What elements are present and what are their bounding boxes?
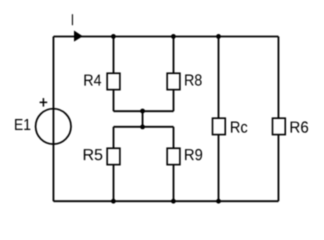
wire bottom horizontal	[53, 200, 278, 202]
wire R8 branch top	[173, 37, 175, 74]
resistor R4	[107, 73, 120, 89]
wire R9 branch bottom	[173, 165, 175, 202]
wire left vertical	[52, 37, 54, 202]
wire center link	[142, 111, 144, 127]
junction node mid upper	[140, 109, 145, 114]
label R8	[185, 74, 201, 85]
resistor R5	[107, 148, 120, 164]
current arrow I	[74, 31, 83, 42]
wire R4 branch top	[113, 37, 115, 74]
label E1	[15, 119, 30, 130]
junction node top R4	[111, 34, 116, 39]
junction node top R8	[171, 34, 176, 39]
wire Rc branch bottom	[218, 135, 220, 202]
voltage source E1	[36, 109, 71, 144]
wire R6 branch top	[277, 37, 279, 119]
junction node bottom Rc	[216, 199, 221, 204]
label R5	[84, 149, 103, 160]
wire R5 branch bottom	[113, 165, 115, 202]
wire R4 to mid node	[113, 90, 115, 112]
resistor R8	[167, 73, 180, 89]
junction node top Rc	[216, 34, 221, 39]
junction node mid lower	[140, 125, 145, 130]
label Rc	[231, 122, 247, 133]
resistor R6	[273, 118, 286, 134]
wire top horizontal	[53, 36, 278, 38]
wire R6 branch bottom	[277, 135, 279, 202]
label R4	[84, 75, 101, 86]
junction node bottom R9	[171, 199, 176, 204]
resistor Rc	[213, 118, 226, 134]
wire Rc branch top	[218, 37, 220, 119]
wire R8 to mid node	[173, 90, 175, 112]
label R6	[291, 121, 309, 132]
plus sign	[40, 98, 48, 107]
resistor R9	[167, 148, 180, 164]
label R9	[185, 149, 202, 160]
wire mid upper horizontal	[114, 110, 174, 112]
label I	[72, 14, 73, 25]
junction node bottom R5	[111, 199, 116, 204]
wire R9 branch top	[173, 127, 175, 149]
wire mid lower horizontal	[114, 126, 174, 128]
wire R5 branch top	[113, 127, 115, 149]
